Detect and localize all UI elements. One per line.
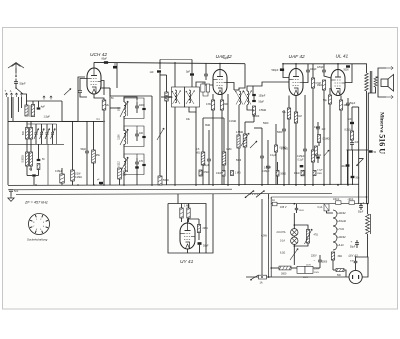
IF transformer 2 secondary coil bbox=[247, 91, 249, 105]
capacitor bus 0.05uF bbox=[60, 174, 65, 183]
svg-text:50μF: 50μF bbox=[203, 245, 209, 248]
svg-text:1nF: 1nF bbox=[150, 71, 155, 74]
svg-text:400: 400 bbox=[139, 132, 144, 135]
oscillator coil group 3 tuning arrow bbox=[120, 157, 128, 173]
svg-text:1 MΩ: 1 MΩ bbox=[235, 173, 241, 175]
svg-text:3000: 3000 bbox=[281, 273, 287, 276]
wire secondary drop bbox=[368, 87, 375, 204]
capacitor T3 0.25uF bbox=[303, 148, 307, 150]
wire IFT2 caps bbox=[252, 86, 254, 94]
resistor T4 cathode 150 bbox=[339, 100, 342, 110]
mains plug bbox=[349, 270, 362, 283]
svg-text:5000: 5000 bbox=[277, 131, 283, 134]
capacitor block group 2 bbox=[142, 136, 145, 138]
band row1 trimmer 4 bbox=[51, 132, 54, 134]
svg-text:45kΩ: 45kΩ bbox=[294, 173, 300, 175]
resistor 0.1M half watt bbox=[71, 170, 75, 181]
capacitor blob 1nF osc bbox=[157, 70, 161, 72]
svg-text:2nF: 2nF bbox=[355, 142, 360, 144]
variable resistor hum bbox=[290, 249, 298, 261]
wire osc top vertical bbox=[159, 60, 161, 70]
oscillator coil group 3 core line bbox=[127, 158, 129, 172]
dashed link switch bbox=[250, 193, 261, 195]
oscillator coil group 2 tuning arrow bbox=[120, 129, 128, 145]
wire tone t3 links bbox=[317, 122, 319, 127]
IFT1 primary coil bbox=[175, 90, 177, 103]
voltage selector box 2 bbox=[305, 266, 313, 273]
svg-text:+: + bbox=[351, 240, 353, 244]
resistor band 47k bbox=[199, 170, 202, 176]
wire IFT2 bottom bbox=[238, 105, 240, 185]
svg-text:50μF: 50μF bbox=[358, 212, 364, 214]
output transformer secondary bbox=[374, 77, 377, 87]
svg-text:0.1MΩ: 0.1MΩ bbox=[75, 177, 82, 179]
svg-text:0.1μF: 0.1μF bbox=[298, 160, 305, 162]
svg-text:5000: 5000 bbox=[322, 262, 328, 264]
svg-text:50pF: 50pF bbox=[223, 57, 229, 60]
svg-text:8.2kΩ: 8.2kΩ bbox=[345, 130, 351, 132]
svg-text:5nF: 5nF bbox=[14, 190, 19, 193]
band row2 coil B bbox=[30, 152, 33, 166]
capacitor antenna 50pF bbox=[14, 81, 18, 83]
svg-text:4,5W: 4,5W bbox=[261, 235, 267, 238]
wire bus drop to IFT2 B plus bbox=[239, 64, 245, 90]
wire T4 anode out bbox=[345, 64, 352, 83]
coil tone small bbox=[318, 135, 321, 143]
electrolytic cap 50uF lower bbox=[355, 242, 359, 244]
band row1 coil B bbox=[30, 128, 33, 140]
svg-text:1nF: 1nF bbox=[322, 129, 327, 131]
speaker magnet bbox=[381, 79, 388, 87]
resistor T2 cathode bbox=[220, 100, 223, 110]
svg-text:0.1A: 0.1A bbox=[280, 240, 285, 243]
speaker cone bbox=[388, 75, 394, 92]
svg-text:5000: 5000 bbox=[263, 122, 269, 125]
capacitor T4 cathode 50uF bbox=[346, 102, 350, 104]
capacitor rect 50uF bbox=[198, 242, 202, 245]
wire group 3 bottom bbox=[124, 166, 144, 174]
socket pins bbox=[30, 215, 48, 233]
power feed line bbox=[271, 203, 366, 205]
capacitor 25000 bbox=[260, 155, 264, 157]
switch mains DPDT arm2 bbox=[256, 191, 264, 198]
wire T2 anode top bbox=[219, 64, 221, 70]
tube U5 UY41 rectifier bbox=[180, 223, 195, 249]
svg-text:47Ω: 47Ω bbox=[314, 234, 319, 237]
resistor T3 right 0.5M bbox=[311, 78, 314, 88]
capacitor IFT1 top 5pF bbox=[190, 73, 194, 75]
capacitor tone 2nF bbox=[350, 142, 354, 144]
resistor IFT2 0.5M bbox=[252, 106, 255, 115]
wire group 3 top bbox=[124, 154, 137, 158]
IF transformer 2 primary coil bbox=[239, 91, 241, 105]
wire row1 tops bbox=[26, 121, 28, 127]
svg-text:5000: 5000 bbox=[236, 160, 242, 162]
svg-text:30Ω: 30Ω bbox=[338, 255, 343, 258]
band row1 trimmer 3 bbox=[46, 132, 49, 134]
voltage selector box 1 bbox=[297, 266, 305, 273]
resistor box T2 grid bbox=[206, 84, 209, 92]
wire IFT1 cap link bbox=[191, 76, 193, 87]
antenna bbox=[8, 63, 24, 74]
wire 500pF link bbox=[282, 64, 284, 69]
trimmer arrow mid bbox=[157, 128, 164, 140]
coil L2 input bbox=[31, 105, 34, 117]
svg-text:1MΩ: 1MΩ bbox=[317, 173, 322, 175]
capacitor group 2 bbox=[135, 133, 139, 135]
resistor cathode 2k bbox=[102, 100, 106, 110]
wire antenna lead bbox=[15, 68, 17, 77]
wire gnd lead bbox=[10, 192, 12, 196]
switch tone t3 bbox=[324, 150, 329, 156]
svg-text:50kΩ: 50kΩ bbox=[281, 174, 287, 176]
wire selector bbox=[271, 267, 279, 269]
svg-text:100: 100 bbox=[118, 106, 121, 111]
svg-text:125pF: 125pF bbox=[317, 67, 324, 69]
wire switch to antenna coil top bbox=[23, 94, 27, 105]
svg-text:150V: 150V bbox=[314, 272, 320, 274]
volume pot with arrow bbox=[243, 134, 247, 147]
svg-text:5nF: 5nF bbox=[350, 261, 354, 263]
svg-text:−40 Ω: −40 Ω bbox=[347, 199, 354, 201]
wire anode to top bus bbox=[93, 62, 95, 68]
capacitor tone 5nF blob bbox=[350, 122, 354, 124]
wire IFT2 to T3 grid bbox=[253, 82, 289, 86]
wire top link row bbox=[32, 101, 34, 105]
svg-text:UY41: UY41 bbox=[338, 227, 345, 231]
switch mains bottom bbox=[251, 275, 259, 280]
svg-text:+: + bbox=[363, 201, 365, 205]
wire IFT1 bottoms bbox=[174, 107, 176, 185]
capacitor chassis 5nF bbox=[9, 189, 13, 191]
svg-text:UL41: UL41 bbox=[338, 243, 345, 247]
wire T2 grid boxes bbox=[203, 92, 208, 96]
resistor T3 under2 1M bbox=[294, 112, 297, 123]
capacitor block group 1 bbox=[142, 108, 145, 110]
wire hum pot bbox=[293, 248, 295, 265]
resistor plug series bbox=[336, 268, 344, 271]
output transformer primary bbox=[365, 73, 369, 91]
svg-text:ZF = 457 kHz: ZF = 457 kHz bbox=[24, 201, 48, 205]
wire T3 anode bbox=[295, 64, 297, 69]
svg-text:UY 41: UY 41 bbox=[180, 259, 194, 265]
fuse box on bus bbox=[272, 202, 277, 206]
resistor det 0.5M bbox=[201, 152, 205, 165]
svg-text:0.1μF: 0.1μF bbox=[203, 164, 210, 167]
svg-text:6,3Ω: 6,3Ω bbox=[280, 252, 285, 255]
coil L1 antenna bbox=[25, 105, 28, 116]
capacitor coupling 500pF blob bbox=[280, 68, 284, 71]
wire rect right column bbox=[206, 194, 213, 253]
capacitor plug 5nF bbox=[354, 260, 358, 262]
oscillator coil group 2 coil bbox=[124, 130, 126, 144]
resistor T3 under 50k bbox=[287, 108, 290, 119]
small box heater tap bbox=[324, 204, 329, 211]
wire T2 col bbox=[227, 94, 229, 185]
svg-text:50μF: 50μF bbox=[350, 103, 356, 105]
wire input node down bbox=[11, 97, 13, 118]
capacitor line filter 5000 bbox=[318, 259, 322, 261]
capacitor tone 1nF t3 bbox=[316, 126, 320, 128]
wire det row bbox=[283, 150, 285, 185]
resistor T2 bottom 0.3M bbox=[211, 100, 214, 110]
wire osc to tube bbox=[110, 95, 152, 97]
wire det links bbox=[245, 121, 254, 123]
wire lamp chain bbox=[293, 213, 295, 229]
capacitor grid 50pF bbox=[85, 150, 89, 152]
wire avc long bbox=[203, 117, 224, 119]
switch mains DPDT arm1 bbox=[246, 191, 254, 198]
svg-text:50pF: 50pF bbox=[259, 101, 265, 104]
resistor band half watt bbox=[222, 171, 225, 177]
wire T4 anode to bus bbox=[337, 64, 339, 70]
wire band 50k bbox=[277, 162, 279, 171]
wire rect block box bbox=[168, 204, 206, 254]
svg-text:UL 41: UL 41 bbox=[336, 54, 349, 60]
wire T2 side to IFT2 bbox=[227, 83, 234, 91]
secondary bus line bbox=[8, 188, 232, 191]
capacitor group 3 bbox=[135, 161, 139, 163]
band row2 coil A bbox=[26, 152, 29, 166]
wire rect bottom pin bbox=[187, 249, 189, 253]
svg-text:1M: 1M bbox=[298, 115, 301, 118]
ground symbol bbox=[8, 196, 14, 201]
svg-text:0.0003: 0.0003 bbox=[22, 155, 25, 163]
coil core line L1 L2 bbox=[29, 105, 31, 117]
resistor 40 ohm box bbox=[349, 201, 355, 205]
svg-text:125V: 125V bbox=[314, 268, 320, 270]
svg-text:1MΩ: 1MΩ bbox=[226, 148, 231, 151]
wire osc res top link bbox=[160, 74, 167, 76]
capacitor block group 3 bbox=[142, 164, 145, 166]
oscillator coil group 1 tuning arrow bbox=[120, 101, 128, 117]
oscillator coil group 2 core line bbox=[127, 130, 129, 144]
IFT2 primary cross arrows bbox=[236, 91, 244, 105]
oscillator coil group 1 core line bbox=[127, 102, 129, 116]
band row1 coil A bbox=[26, 128, 29, 140]
svg-text:Sockelschaltung: Sockelschaltung bbox=[27, 238, 48, 242]
svg-text:5nF: 5nF bbox=[348, 119, 353, 121]
band mid line bbox=[8, 143, 64, 145]
wire group 2 top bbox=[124, 126, 137, 130]
svg-text:500: 500 bbox=[22, 130, 25, 135]
wire grid column bbox=[78, 77, 85, 121]
resistor band 45k bbox=[301, 170, 304, 176]
resistor T4 grid leak bbox=[322, 80, 325, 90]
capacitor 5000 det bbox=[282, 128, 286, 130]
variable resistor lamps shunt bbox=[306, 230, 309, 244]
wire T3 half bbox=[275, 124, 277, 145]
wire tone column vertical bbox=[358, 107, 360, 204]
output transformer core bbox=[369, 71, 371, 93]
wire electrolytic lower bbox=[356, 240, 358, 243]
wire row1 bottoms bbox=[26, 139, 28, 144]
capacitor blob band bbox=[300, 165, 304, 167]
svg-text:Minerva: Minerva bbox=[378, 112, 384, 133]
oscillator coil group 3 coil bbox=[124, 158, 126, 172]
resistor bus 0.1M half W bbox=[118, 168, 122, 179]
svg-text:0.2μF: 0.2μF bbox=[317, 170, 323, 172]
svg-text:3MΩ: 3MΩ bbox=[205, 124, 210, 127]
capacitor tone 40n blob bbox=[346, 164, 350, 166]
capacitor blob 50pF T4 bbox=[346, 65, 350, 67]
band row1 trimmer 2 bbox=[40, 132, 43, 134]
junction dots heater bbox=[360, 203, 362, 205]
capacitor T4 grid 10nF bbox=[322, 69, 326, 71]
svg-text:165 V: 165 V bbox=[280, 206, 287, 209]
pilot lamp 2 bbox=[291, 237, 298, 244]
svg-text:~: ~ bbox=[314, 258, 316, 262]
capacitor input 4pF blob bbox=[37, 107, 41, 109]
capacitor IFT2 50pF bbox=[252, 100, 256, 102]
wire tone cap bbox=[351, 107, 353, 122]
svg-text:1100: 1100 bbox=[118, 134, 121, 140]
svg-text:0.3M: 0.3M bbox=[206, 103, 211, 106]
svg-text:470: 470 bbox=[139, 160, 144, 163]
wire osc grid column bbox=[109, 88, 111, 185]
wire osc top stub bbox=[116, 63, 118, 88]
IFT1 secondary coil bbox=[189, 90, 191, 103]
svg-text:4pF: 4pF bbox=[41, 106, 46, 109]
junction dots power bbox=[268, 276, 270, 278]
svg-text:0.5MΩ: 0.5MΩ bbox=[280, 148, 287, 150]
wire plug leads bbox=[356, 257, 369, 277]
svg-text:150Ω: 150Ω bbox=[344, 105, 350, 107]
wire tone caps bbox=[347, 150, 349, 164]
IFT1 secondary tuning arrows cross bbox=[186, 91, 195, 105]
resistor band 1M bbox=[231, 171, 234, 176]
svg-text:0.25μF: 0.25μF bbox=[297, 155, 305, 158]
svg-text:4.5MΩ: 4.5MΩ bbox=[236, 131, 243, 134]
power bus pair line B bbox=[270, 199, 272, 277]
wire AVC bus long bbox=[8, 120, 103, 122]
svg-text:1A: 1A bbox=[272, 199, 275, 202]
svg-text:MΩ: MΩ bbox=[196, 151, 200, 154]
IF transformer 1 box left bbox=[172, 87, 185, 107]
electrolytic cap 50uF upper bbox=[359, 205, 363, 207]
capacitor left of IFT1 bbox=[164, 95, 166, 99]
wire right column band bbox=[61, 101, 63, 121]
volume pot coil column bbox=[237, 135, 240, 148]
svg-text:2MΩ: 2MΩ bbox=[203, 227, 208, 230]
IFT2 secondary cross arrows bbox=[244, 91, 252, 105]
svg-text:500pF: 500pF bbox=[272, 69, 279, 72]
wire power top stubs bbox=[268, 194, 270, 199]
wire band box to grid bbox=[62, 120, 78, 122]
wire heater chain spine bbox=[327, 211, 334, 213]
filter choke bbox=[366, 214, 370, 234]
power bus pair line A bbox=[268, 199, 270, 277]
resistor T3 40k bbox=[311, 150, 314, 162]
heater chain coil bbox=[333, 210, 337, 250]
capacitor bus blob mid bbox=[135, 166, 139, 168]
wire choke bbox=[367, 204, 369, 214]
capacitor IFT2 150pF bbox=[252, 94, 256, 96]
capacitor screen T2 bbox=[204, 73, 208, 75]
resistor 130 ohm box bbox=[336, 201, 342, 205]
svg-text:150pF: 150pF bbox=[259, 95, 266, 98]
svg-text:0.0112: 0.0112 bbox=[118, 161, 121, 169]
terminal arrows antenna panel bbox=[5, 93, 8, 97]
svg-text:0,1A: 0,1A bbox=[318, 206, 323, 209]
svg-text:UAF42: UAF42 bbox=[338, 211, 347, 215]
wire T3 side bbox=[303, 76, 308, 83]
svg-text:5000: 5000 bbox=[344, 70, 350, 72]
capacitor tone blob t3 bbox=[316, 156, 319, 158]
band row1 trimmer 1 bbox=[35, 132, 38, 134]
junction dots extra bbox=[159, 62, 161, 64]
tube U1 UCH42 bbox=[87, 68, 101, 94]
upper feed line bbox=[271, 196, 366, 198]
svg-text:0.05μF: 0.05μF bbox=[262, 170, 270, 173]
IFT1 primary tuning arrows cross bbox=[173, 91, 181, 105]
switch wave-band S1 bbox=[16, 88, 23, 94]
svg-text:50μF: 50μF bbox=[350, 247, 356, 249]
tube socket diagram circle bbox=[29, 214, 50, 235]
resistor tone mid bbox=[315, 146, 318, 155]
speaker terminal top bbox=[386, 67, 393, 70]
svg-text:0.1MΩ: 0.1MΩ bbox=[323, 139, 330, 141]
svg-text:25000: 25000 bbox=[253, 115, 260, 118]
tube U4 UL41 bbox=[331, 70, 345, 96]
wire tone row bbox=[347, 149, 369, 151]
svg-text:UCH42: UCH42 bbox=[338, 219, 347, 223]
wire osc stack spine bbox=[123, 116, 125, 131]
svg-text:130 Ω: 130 Ω bbox=[333, 199, 339, 201]
resistor heater 30 ohm bbox=[331, 252, 334, 260]
IF transformer 1 box right bbox=[185, 87, 200, 107]
fuse 1A bbox=[259, 275, 267, 279]
wire group 2 bottom bbox=[124, 138, 144, 146]
junction dots on chassis bbox=[35, 184, 37, 186]
svg-text:516 U: 516 U bbox=[378, 134, 387, 154]
resistor osc feed 25k bbox=[165, 92, 168, 101]
wire speaker frame bbox=[376, 68, 387, 77]
wire grid left stub bbox=[80, 79, 87, 91]
svg-text:50pF: 50pF bbox=[81, 148, 87, 151]
resistor T3 half bbox=[275, 145, 278, 152]
switch tone bbox=[357, 159, 364, 166]
wire res pair bbox=[181, 204, 183, 209]
wire to output transformer bbox=[352, 64, 367, 73]
svg-text:1/2W: 1/2W bbox=[216, 173, 222, 175]
svg-text:1MΩ: 1MΩ bbox=[317, 85, 322, 87]
wire top link T1 zone bbox=[109, 88, 111, 96]
resistor row2 small bbox=[37, 164, 40, 170]
chassis bus line bbox=[8, 184, 359, 185]
top bus line left segment bbox=[94, 62, 245, 63]
svg-text:UAF 42: UAF 42 bbox=[289, 54, 306, 60]
wire bottom power line bbox=[246, 276, 349, 278]
wire transformer primary drop bbox=[366, 91, 368, 204]
switch detector arrow bbox=[250, 141, 257, 148]
capacitor bus blob 5000 bbox=[99, 182, 103, 184]
svg-text:150V: 150V bbox=[299, 210, 305, 212]
resistor bus 500 bbox=[158, 176, 162, 185]
wire band right verticals bbox=[47, 144, 49, 185]
wire cathode down bbox=[94, 94, 104, 100]
svg-text:500Ω: 500Ω bbox=[163, 180, 169, 182]
capacitor blob screen 115 bbox=[113, 66, 117, 69]
resistor heater div 2 bbox=[187, 208, 190, 218]
wire group 1 bottom bbox=[124, 110, 144, 118]
resistor 25k bbox=[92, 150, 96, 163]
svg-text:100pF: 100pF bbox=[310, 69, 317, 71]
wire heater bottom bbox=[332, 260, 334, 270]
capacitor blob 80pF on bus bbox=[104, 61, 108, 64]
oscillator coil group 1 coil bbox=[124, 102, 126, 116]
resistor band 50k bbox=[276, 171, 279, 177]
